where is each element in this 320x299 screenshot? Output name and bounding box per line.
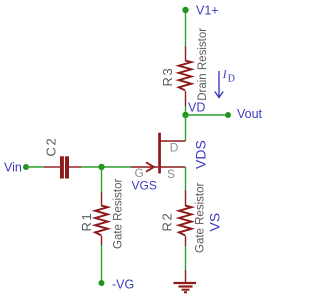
svg-text:D: D: [228, 74, 235, 85]
node Vout: [225, 112, 231, 118]
wire C2 to gate: [81, 166, 132, 168]
capacitor C2: [44, 137, 82, 179]
svg-text:R3: R3: [160, 67, 175, 87]
resistor R3: [160, 28, 209, 106]
svg-text:Gate Resistor: Gate Resistor: [113, 179, 125, 249]
wire VD to drain: [185, 115, 187, 141]
drain lead: [160, 140, 186, 142]
wire source to R2: [185, 167, 187, 191]
resistor R1: [79, 179, 125, 249]
svg-text:-VG: -VG: [112, 278, 134, 292]
node Vin: [23, 164, 29, 170]
source lead: [160, 166, 186, 168]
wire junction to R1: [101, 167, 103, 193]
node junction gate/R1: [98, 164, 104, 170]
wire VD to Vout: [186, 114, 229, 116]
node -VG: [99, 280, 105, 286]
wire R1 to -VG: [101, 245, 103, 283]
resistor R2: [160, 183, 207, 253]
svg-text:V1+: V1+: [196, 4, 219, 18]
wire Vin to C2: [26, 166, 44, 168]
gate lead with arrow: [131, 166, 158, 168]
svg-text:C2: C2: [44, 137, 59, 157]
wire R2 to ground: [185, 246, 187, 270]
node VD: [182, 112, 188, 118]
svg-text:D: D: [170, 140, 179, 154]
svg-text:Vout: Vout: [237, 107, 263, 121]
svg-text:VDS: VDS: [193, 140, 209, 169]
svg-text:Gate Resistor: Gate Resistor: [195, 183, 207, 253]
wire R3 to VD node: [185, 106, 187, 115]
node V1+: [182, 7, 188, 13]
current arrow ID: [215, 71, 223, 98]
svg-text:Vin: Vin: [4, 161, 22, 175]
svg-text:Drain Resistor: Drain Resistor: [197, 28, 209, 101]
svg-text:S: S: [167, 167, 175, 181]
ground: [174, 270, 197, 292]
svg-text:VGS: VGS: [132, 179, 157, 193]
svg-text:VD: VD: [188, 101, 205, 115]
channel bar: [158, 133, 161, 174]
wire V1+ to R3: [185, 10, 187, 47]
svg-text:R1: R1: [79, 212, 94, 232]
transistor Q1 JFET: [131, 133, 186, 182]
svg-text:VS: VS: [207, 213, 223, 232]
svg-text:R2: R2: [160, 212, 175, 232]
